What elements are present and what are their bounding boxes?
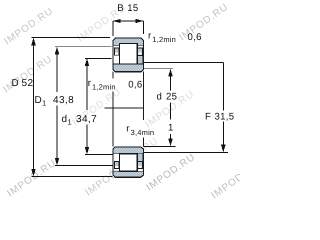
svg-text:1,2min: 1,2min	[152, 35, 176, 44]
centerline	[105, 107, 144, 109]
svg-text:34,7: 34,7	[76, 114, 97, 125]
D1 arrow down	[55, 158, 60, 166]
D top extension line	[32, 37, 111, 39]
bearing lower cross-section (inner ring, cage, roller, outer ring)	[113, 147, 143, 177]
svg-text:D: D	[35, 95, 43, 106]
B dimension line	[113, 20, 144, 22]
F dimension (right): vertical line	[222, 63, 224, 147]
B arrow left	[113, 19, 121, 23]
d1 top extension line	[85, 57, 112, 59]
watermark IMPOD.RU bottom-center	[83, 157, 136, 199]
rings filled silhouette	[113, 147, 143, 177]
white gap right of roller	[137, 169, 142, 171]
d arrow up	[168, 69, 173, 77]
svg-text:1,2min: 1,2min	[92, 83, 116, 92]
outer raceway edge lines	[113, 170, 143, 172]
svg-text:D: D	[12, 78, 20, 89]
cage pocket left	[114, 48, 119, 55]
cage pocket right	[138, 48, 143, 55]
d arrow down	[168, 139, 173, 147]
svg-text:B: B	[117, 3, 124, 14]
d1 arrow up	[85, 58, 90, 66]
F bottom extension line	[143, 152, 228, 154]
F top extension line	[143, 62, 223, 64]
svg-text:0,6: 0,6	[128, 80, 142, 91]
svg-text:3,4min: 3,4min	[131, 128, 155, 137]
inner ring flange (right)	[138, 153, 143, 161]
d1 bottom extension line	[85, 154, 112, 156]
svg-text:25: 25	[166, 92, 177, 103]
inner raceway edge line	[113, 152, 143, 154]
watermark IMPOD.RU mid-left	[1, 54, 54, 96]
watermark IMPOD.RU mid-right	[143, 89, 196, 131]
D1 arrow up	[55, 47, 60, 55]
d top extension line	[143, 68, 173, 70]
roller	[119, 44, 137, 64]
watermark IMPOD.RU bottom-left	[5, 158, 58, 200]
D1 top extension line	[55, 46, 112, 48]
F arrow down	[221, 145, 226, 153]
svg-text:1: 1	[68, 117, 72, 126]
watermark IMPOD.RU top-center	[75, 3, 128, 45]
svg-text:52: 52	[22, 78, 34, 89]
watermark IMPOD.RU bottom-right	[144, 152, 197, 194]
inner raceway edge line	[113, 63, 143, 65]
white gap left of roller	[114, 154, 120, 171]
svg-text:0,6: 0,6	[188, 32, 202, 43]
D bottom extension line	[32, 176, 113, 178]
d dimension (right): vertical line	[170, 76, 172, 140]
svg-text:31,5: 31,5	[215, 112, 235, 123]
svg-text:d: d	[157, 92, 163, 103]
svg-text:1: 1	[168, 123, 174, 134]
cage pocket right	[138, 161, 143, 168]
watermark IMPOD.RU top-right	[177, 2, 230, 44]
B arrow right	[136, 19, 144, 23]
D1 bottom extension line	[55, 165, 112, 167]
B dimension: extension lines	[113, 21, 144, 36]
watermark IMPOD.RU corner	[209, 160, 262, 202]
outer+inner ring filled silhouette	[113, 38, 143, 72]
roller	[119, 154, 137, 171]
cage pocket left	[114, 161, 119, 168]
D1 dimension: vertical line	[56, 53, 58, 160]
d1 arrow down	[85, 147, 90, 155]
D dimension: vertical line	[33, 44, 35, 171]
white gap left of roller	[114, 46, 120, 64]
watermark IMPOD.RU center	[70, 87, 123, 129]
inner ring flange (right)	[138, 55, 143, 64]
d1 dimension: vertical line	[86, 65, 88, 149]
wire bearing left silhouette line	[112, 72, 114, 147]
wire bearing right silhouette line	[142, 72, 144, 147]
svg-text:1: 1	[42, 98, 46, 107]
white gap right of roller	[137, 46, 142, 48]
watermark IMPOD.RU center-low	[107, 136, 160, 178]
bearing upper cross-section (outer ring, roller, cage, inner ring with flange)	[113, 38, 143, 72]
outer raceway edge lines	[113, 45, 143, 47]
watermark IMPOD.RU top-left	[2, 6, 55, 48]
D arrow up	[31, 38, 36, 46]
d bottom extension line	[143, 145, 175, 147]
D arrow down	[31, 169, 36, 177]
svg-text:43,8: 43,8	[53, 95, 74, 106]
svg-text:F: F	[205, 112, 211, 123]
svg-text:15: 15	[127, 3, 138, 14]
